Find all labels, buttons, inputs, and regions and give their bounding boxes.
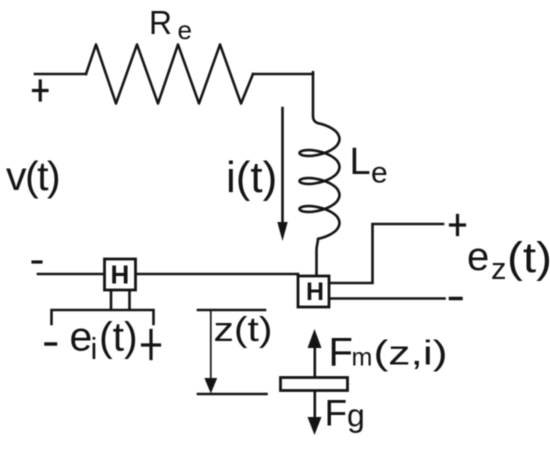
label H of H1 [111, 260, 130, 290]
label H of H2 [306, 278, 324, 306]
svg-text:g: g [347, 398, 365, 434]
svg-text:R: R [149, 4, 172, 41]
wire Fm arrow line [313, 346, 316, 377]
wire Fg arrow line [313, 391, 316, 418]
wire H2 bottom-right terminal to minus [330, 297, 445, 300]
wire main horizontal left [38, 273, 103, 276]
label Fm(z,i) [329, 331, 448, 375]
label ez(t) [467, 234, 550, 286]
svg-text:H: H [306, 278, 324, 306]
svg-text:(z,i): (z,i) [374, 335, 448, 373]
svg-text:e: e [70, 314, 93, 360]
svg-text:e: e [178, 15, 192, 45]
label ei(t) [70, 314, 138, 367]
svg-text:z(t): z(t) [214, 311, 273, 349]
wire left lead of resistor [35, 73, 86, 76]
wire z(t) arrow line [210, 310, 212, 380]
wire H2 top-right terminal to plus [330, 224, 443, 283]
label Re [149, 4, 192, 45]
wire z(t) bottom reference line [198, 393, 267, 396]
arrowhead of Fm [308, 329, 322, 348]
resistor Re zigzag [86, 45, 253, 104]
svg-text:i(t): i(t) [226, 153, 277, 202]
label Le [350, 141, 388, 190]
arrowhead of Fg [308, 417, 322, 435]
wire main horizontal middle [136, 273, 298, 276]
inductor Le coil with leads [300, 72, 340, 276]
arrowhead of i(t) [277, 222, 287, 241]
label + of source [34, 81, 48, 100]
svg-text:m: m [352, 344, 373, 372]
wire bracket under H1 [52, 310, 154, 324]
transducer block H1 (left) [105, 259, 136, 290]
label i(t) [226, 153, 277, 202]
label + of ei(t) [143, 331, 160, 359]
svg-text:F: F [329, 331, 353, 375]
svg-text:F: F [325, 393, 348, 434]
svg-text:z: z [491, 251, 507, 286]
label z(t) [214, 311, 273, 349]
arrowhead of z(t) [204, 378, 217, 394]
label v(t) [6, 153, 59, 199]
label - of ei(t) [46, 342, 56, 346]
svg-text:v(t): v(t) [6, 153, 59, 199]
svg-text:(t): (t) [507, 234, 550, 282]
svg-text:H: H [111, 260, 130, 290]
label - at left of main line [33, 260, 41, 263]
label Fg [325, 393, 365, 434]
transducer block H2 (right) [298, 276, 329, 307]
wire bracket stems under H1 [111, 291, 130, 310]
wire z(t) top reference line [198, 309, 265, 312]
svg-text:(t): (t) [99, 314, 138, 360]
svg-text:i: i [91, 331, 98, 366]
wire right lead of resistor [253, 73, 313, 76]
label + of ez(t) [451, 216, 465, 235]
label - of ez(t) [451, 297, 462, 301]
svg-text:e: e [467, 235, 489, 279]
svg-text:L: L [350, 141, 371, 183]
svg-text:e: e [371, 157, 388, 190]
mass plate [281, 378, 348, 391]
wire current arrow line i(t) [281, 108, 284, 224]
